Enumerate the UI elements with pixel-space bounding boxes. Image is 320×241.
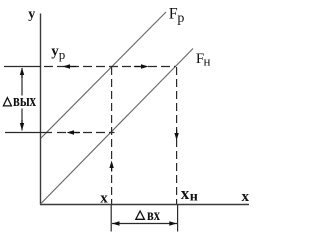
svg-text:н: н bbox=[190, 190, 198, 205]
svg-text:вых: вых bbox=[13, 91, 36, 110]
svg-text:y: y bbox=[28, 7, 35, 22]
svg-text:н: н bbox=[204, 53, 211, 68]
svg-text:x: x bbox=[242, 189, 250, 205]
svg-text:x: x bbox=[181, 184, 190, 203]
svg-text:p: p bbox=[59, 47, 66, 62]
svg-text:p: p bbox=[177, 11, 184, 26]
svg-text:x: x bbox=[100, 191, 108, 207]
svg-text:вх: вх bbox=[147, 207, 160, 224]
